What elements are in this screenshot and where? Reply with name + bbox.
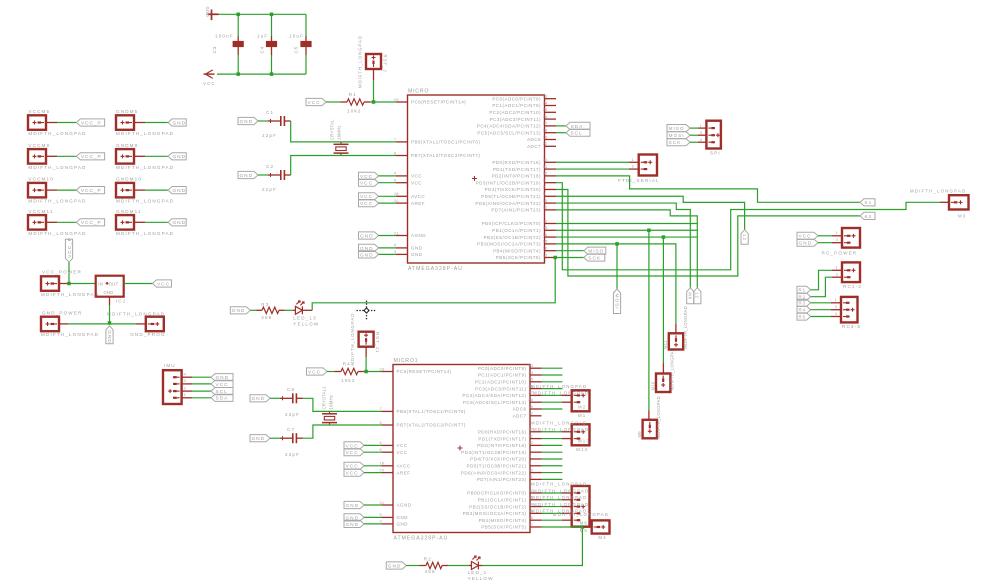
wire MICRO1 PC3 stub [542, 388, 563, 390]
svg-text:29: 29 [394, 98, 399, 102]
svg-text:20: 20 [380, 468, 385, 472]
svg-text:C1: C1 [266, 110, 274, 115]
wire PD1 to M13 [542, 438, 563, 440]
svg-text:PD6(AIN0/OC0A/PCINT22): PD6(AIN0/OC0A/PCINT22) [475, 201, 541, 206]
svg-text:3: 3 [632, 165, 635, 169]
svg-text:5: 5 [394, 244, 396, 248]
wire PB4 to M15 pad [542, 519, 563, 521]
svg-text:PC4(ADC4/SDA/PCINT12): PC4(ADC4/SDA/PCINT12) [462, 393, 526, 398]
pad GND_POWER MDIFTH_LONGPAD [41, 317, 59, 332]
wire MICRO1 PD stub k15.35 [542, 472, 563, 474]
wire PD2 to K1 [556, 176, 860, 202]
svg-text:PB2(SS/OC1B/PCINT2): PB2(SS/OC1B/PCINT2) [484, 235, 541, 240]
svg-text:5: 5 [380, 513, 382, 517]
svg-text:10: 10 [528, 468, 533, 472]
net tag VCC (MICRO pin y175.9) [359, 172, 379, 179]
svg-text:27: 27 [543, 122, 548, 126]
pad M3 MDIFTH_LONGPAD [949, 195, 969, 209]
svg-text:468: 468 [261, 315, 272, 320]
wire GNDM5 to GND [145, 122, 168, 124]
svg-text:M13: M13 [578, 439, 590, 444]
wire R5 to RC3-5 [811, 316, 831, 318]
supply symbol VCC (cap bank) [206, 71, 212, 77]
capacitor C7 22pF [280, 437, 293, 439]
net tag GND (C7) [250, 435, 270, 442]
wire MICRO1 ADC6 stub [542, 408, 563, 410]
svg-text:M4: M4 [598, 535, 606, 540]
svg-text:K1: K1 [865, 200, 873, 206]
svg-text:3: 3 [836, 238, 839, 242]
svg-text:M8: M8 [688, 292, 693, 300]
svg-text:VCC_P: VCC_P [81, 120, 102, 126]
wire GND tag to MICRO [379, 253, 397, 255]
net tag GND (MICRO1 y505.0) [344, 501, 364, 508]
wire VCC tag to MICRO1 [364, 472, 382, 474]
svg-text:3: 3 [700, 131, 703, 135]
svg-text:21: 21 [394, 231, 399, 235]
wire R3 to LED_13 [285, 309, 294, 311]
wire VCC_P down to junction [68, 262, 70, 283]
wire GND to C2 [258, 174, 268, 176]
junction PB5/LED [553, 256, 557, 259]
wire IMU SCL [192, 390, 211, 392]
svg-text:11: 11 [543, 206, 548, 210]
svg-text:GND: GND [106, 330, 112, 344]
net tag VCC (MICRO1 y452.2) [344, 449, 364, 456]
pin 2 PD4(T0/XCK/PCINT20) of MICRO [545, 188, 557, 190]
svg-text:1: 1 [700, 124, 703, 128]
svg-text:AVCC: AVCC [411, 194, 425, 199]
pin 22 ADC7 of MICRO [545, 145, 557, 147]
wire PB5 to M4 [542, 526, 584, 528]
crystal Q1 CRYSTAL 16MHz [334, 143, 349, 145]
svg-text:GNDM11: GNDM11 [116, 209, 142, 214]
svg-text:8: 8 [394, 151, 396, 155]
capacitor C1 22pF [268, 120, 281, 122]
pad VCCM11 MDIFTH_LONGPAD [28, 215, 46, 230]
capacitor C3 100nF [237, 36, 239, 41]
wire MICRO1 PC1 stub [542, 374, 563, 376]
pin 13 PB1(OC1A/PCINT1) of MICRO1 [530, 499, 542, 501]
pin 24 PC1(ADC1/PCINT9) of MICRO [545, 105, 557, 107]
net tag SDA (IMU) [211, 394, 233, 401]
svg-text:VCC_P: VCC_P [81, 220, 102, 226]
svg-text:25: 25 [543, 108, 548, 112]
svg-text:SPI: SPI [710, 151, 721, 156]
wire VCC to R1 [326, 101, 341, 103]
pin 17 PB5(SCK/PCINT5) of MICRO1 [530, 526, 542, 528]
net tag VCC (MICRO pin y182.7) [359, 179, 379, 186]
svg-text:PC0(ADC0/PCINT8): PC0(ADC0/PCINT8) [478, 366, 527, 371]
svg-text:22pF: 22pF [262, 133, 277, 138]
svg-text:LED_13: LED_13 [293, 315, 317, 320]
pin 7 PB6(XTAL1/TOSC1/PCINT6) of MICRO1 [382, 410, 394, 412]
svg-text:16: 16 [528, 516, 533, 520]
pin SPI 3 [698, 134, 706, 136]
wire GND to R3 [250, 309, 256, 311]
wire VCCM11 to VCC_P [57, 221, 76, 223]
svg-text:PB3(MOSI/OC2A/PCINT3): PB3(MOSI/OC2A/PCINT3) [463, 511, 527, 516]
svg-text:C2: C2 [266, 164, 274, 169]
svg-text:MDIFTH_LONGPAD: MDIFTH_LONGPAD [670, 348, 675, 391]
net tag K2 [860, 212, 875, 219]
svg-text:PD5(T1/OC0B/PCINT21): PD5(T1/OC0B/PCINT21) [481, 194, 541, 199]
pin 1 PD3(INT1/OC2B/PCINT19) of MICRO [545, 182, 557, 184]
wire GND to RC_POWER [818, 242, 832, 244]
svg-text:GND: GND [173, 220, 187, 226]
net tag SCL [566, 129, 590, 136]
pin 22 ADC7 of MICRO1 [530, 415, 542, 417]
pin RC1-2 p2 [832, 276, 842, 278]
pin 3 GND of MICRO1 [382, 523, 394, 525]
wire PB1 to M9 pad [648, 230, 650, 410]
svg-text:GND: GND [388, 563, 402, 569]
pin 18 AVCC of MICRO1 [382, 465, 394, 467]
junction RESET2 node [364, 370, 368, 374]
wire SCK to SPI [690, 141, 698, 143]
svg-text:VCC_P: VCC_P [81, 154, 102, 160]
net tag VCC (MICRO1 y465.8) [344, 462, 364, 469]
net tag 12 (PD7) [694, 288, 701, 304]
pad SPI [706, 121, 721, 149]
svg-text:VCCM9: VCCM9 [28, 143, 50, 148]
svg-text:4: 4 [380, 441, 382, 445]
junction C4 top [270, 13, 274, 16]
svg-text:15: 15 [543, 240, 548, 244]
svg-text:MDIFTH_LONGPAD: MDIFTH_LONGPAD [531, 495, 587, 500]
svg-text:C8: C8 [287, 387, 295, 392]
net tag GND (MICRO pin y247.9) [359, 244, 379, 251]
pin 10 PD6(AIN0/OC0A/PCINT22) of MICRO1 [530, 472, 542, 474]
wire GND tag to MICRO [379, 235, 397, 237]
net tag SCK (PB5) [584, 254, 605, 261]
pin IMU VCC [182, 383, 192, 385]
svg-text:1: 1 [836, 231, 839, 235]
pin RC3-5 p3 [831, 316, 841, 318]
svg-text:19: 19 [543, 135, 548, 139]
wire MICRO1 PC2 stub [542, 381, 563, 383]
pin M4 [583, 526, 592, 528]
pin 8 PB7(XTAL2/TOSC2/PCINT7) of MICRO [396, 155, 408, 157]
svg-text:1: 1 [836, 266, 839, 270]
net tag GND (C8) [250, 395, 270, 402]
wire GND tag to MICRO [379, 247, 397, 249]
svg-text:3: 3 [394, 250, 396, 254]
svg-text:17: 17 [543, 253, 548, 257]
wire vcc rail bottom [217, 73, 306, 75]
pin M15 p5 [562, 519, 572, 521]
pin M15 p2 [562, 499, 572, 501]
pin 20 AREF of MICRO1 [382, 472, 394, 474]
svg-text:21: 21 [380, 501, 385, 505]
wire VCC_POWER to IC1 IN [68, 283, 96, 285]
svg-text:30: 30 [543, 158, 548, 162]
net tag M8 (PD6) [687, 288, 694, 304]
svg-text:VCC: VCC [308, 369, 321, 375]
net tag GND (RC_POWER) [797, 239, 818, 246]
svg-text:C3: C3 [212, 46, 217, 54]
svg-text:16MHz: 16MHz [329, 395, 334, 410]
pin 14 PB2(SS/OC1B/PCINT2) of MICRO [545, 236, 557, 238]
net tag VCC (MICRO pin y196.3) [359, 193, 379, 200]
svg-text:MDIFTH_LONGPAD: MDIFTH_LONGPAD [531, 420, 587, 425]
net tag VCC (RC_POWER) [797, 232, 818, 239]
pad VCC_POWER MDIFTH_LONGPAD [41, 276, 59, 291]
wire PC4 to M1 [542, 394, 563, 396]
pad VCCM10 MDIFTH_LONGPAD [28, 183, 46, 198]
pin 16 PB4(MISO/PCINT4) of MICRO1 [530, 519, 542, 521]
net tag VCC_P (VCCM10) [76, 187, 104, 194]
wire IMU SDA [192, 397, 211, 399]
svg-text:R3: R3 [261, 302, 269, 307]
svg-text:MDIFTH_LONGPAD: MDIFTH_LONGPAD [533, 488, 589, 493]
pad M15 MDIFTH_LONGPAD x5 [572, 486, 590, 527]
pin RC1-2 p1 [832, 269, 842, 271]
svg-text:PC2(ADC2/PCINT10): PC2(ADC2/PCINT10) [475, 380, 527, 385]
svg-text:PD1(TXD/PCINT17): PD1(TXD/PCINT17) [478, 436, 526, 441]
wire R3 to RC3-5 [811, 302, 831, 304]
pad M10 MDIFTH_LONGPAD [662, 363, 664, 373]
svg-text:AGND: AGND [411, 233, 426, 238]
wire C3 bottom lead [237, 55, 239, 74]
junction PB5-2/LED [581, 525, 585, 529]
svg-text:9: 9 [528, 462, 530, 466]
pin 29 PC6(RESET/PCINT14) of MICRO1 [382, 371, 394, 373]
svg-text:9: 9 [543, 192, 545, 196]
svg-text:14: 14 [543, 233, 548, 237]
svg-text:PD4(T0/XCK/PCINT20): PD4(T0/XCK/PCINT20) [485, 187, 541, 192]
net tag R2 (RC) [797, 293, 811, 300]
wire VCC to R4 [327, 371, 335, 373]
pin 12 PB0(ICP/CLKO/PCINT0) of MICRO1 [530, 492, 542, 494]
svg-text:M9: M9 [637, 431, 642, 438]
svg-text:4: 4 [835, 312, 838, 316]
svg-text:PB5(SCK/PCINT5): PB5(SCK/PCINT5) [481, 525, 526, 530]
net tag R4 (RC) [797, 306, 811, 313]
svg-text:18: 18 [394, 192, 399, 196]
wire C5 top lead [305, 14, 307, 36]
svg-text:MDIFTH_LONGPAD: MDIFTH_LONGPAD [116, 199, 174, 204]
svg-text:GND: GND [397, 522, 409, 527]
ground symbol (cap bank) [211, 10, 213, 21]
svg-text:PD5(T1/OC0B/PCINT21): PD5(T1/OC0B/PCINT21) [467, 463, 527, 468]
svg-text:32: 32 [543, 172, 548, 176]
svg-text:VCC: VCC [411, 174, 422, 179]
svg-text:GNDM10: GNDM10 [116, 177, 142, 182]
wire R1 to RC1-2 [811, 270, 832, 290]
wire C2 to XTAL2 [291, 156, 396, 176]
origin cross of MICRO [472, 178, 477, 180]
svg-text:PC3(ADC3/PCINT11): PC3(ADC3/PCINT11) [475, 386, 526, 391]
svg-text:11: 11 [528, 475, 533, 479]
wire R4 to RC3-5 [811, 309, 831, 311]
pin 32 PD2(INT0/PCINT18) of MICRO [545, 175, 557, 177]
resistor R2 468 [420, 565, 427, 567]
pin 26 PC3(ADC3/PCINT11) of MICRO [545, 118, 557, 120]
wire PC5 to SCL [556, 132, 566, 134]
svg-text:SDA: SDA [216, 396, 229, 402]
svg-text:RC1-2: RC1-2 [843, 284, 862, 289]
wire PB1 to M15 pad [542, 499, 563, 501]
svg-text:PC6(RESET/PCINT14): PC6(RESET/PCINT14) [411, 100, 466, 105]
svg-text:PD0(RXD/PCINT16): PD0(RXD/PCINT16) [492, 160, 541, 165]
wire VCCM10 to VCC_P [57, 189, 76, 191]
pad M1 MDIFTH_LONGPAD [572, 390, 590, 411]
wire VCC tag to MICRO1 [364, 444, 382, 446]
pin GND_POWER [59, 323, 68, 325]
svg-text:PD3(INT1/OC2B/PCINT19): PD3(INT1/OC2B/PCINT19) [476, 180, 541, 185]
svg-text:R1: R1 [349, 92, 357, 97]
net tag GND (C2) [238, 171, 258, 178]
svg-text:MDIFTH_LONGPAD: MDIFTH_LONGPAD [533, 427, 589, 432]
svg-text:VCC: VCC [346, 450, 359, 456]
svg-text:R3: R3 [799, 301, 807, 306]
svg-text:AREF: AREF [411, 201, 425, 206]
wire PB3 to MOSI tag [616, 244, 618, 289]
svg-text:28: 28 [528, 398, 533, 402]
svg-text:PB0(ICP/CLKO/PCINT0): PB0(ICP/CLKO/PCINT0) [482, 221, 541, 226]
pin M1 p2 [562, 401, 572, 403]
wire PC5 to M1 [542, 401, 563, 403]
pin 28 PC5(ADC5/SCL/PCINT13) of MICRO1 [530, 401, 542, 403]
net tag VCC (R1) [306, 98, 326, 105]
svg-text:1uF: 1uF [257, 34, 268, 39]
wire PB0 to M15 pad [542, 492, 563, 494]
svg-text:VCC: VCC [203, 81, 216, 86]
svg-text:RC_POWER: RC_POWER [822, 251, 858, 256]
pin IMU SCL [182, 390, 192, 392]
pin 30 PD0(RXD/PCINT16) of MICRO1 [530, 431, 542, 433]
wire C7 to XTAL2 2 [303, 425, 382, 438]
wire PB5 down to LED_1 [482, 527, 582, 566]
svg-text:MDIFTH_LONGPAD: MDIFTH_LONGPAD [656, 396, 661, 439]
svg-text:29: 29 [380, 367, 385, 371]
pad M13 MDIFTH_LONGPAD [572, 424, 590, 445]
svg-text:3: 3 [380, 520, 382, 524]
pin 5 GND of MICRO1 [382, 516, 394, 518]
svg-text:K2: K2 [865, 214, 873, 220]
svg-text:22pF: 22pF [285, 452, 300, 457]
svg-text:MDIFTH_LONGPAD: MDIFTH_LONGPAD [116, 131, 174, 136]
svg-text:10k2: 10k2 [347, 109, 362, 114]
svg-text:VCC: VCC [157, 281, 170, 287]
svg-text:MDIFTH_LONGPAD: MDIFTH_LONGPAD [107, 312, 165, 317]
svg-text:MDIFTH_LONGPAD: MDIFTH_LONGPAD [533, 391, 589, 396]
pin 27 PC4(ADC4/SDA/PCINT12) of MICRO [545, 125, 557, 127]
pin 32 PD2(INT0/PCINT18) of MICRO1 [530, 444, 542, 446]
net tag VCC (MICRO pin y203.1) [359, 200, 379, 207]
pin M1 p1 [562, 394, 572, 396]
svg-text:24: 24 [528, 371, 533, 375]
svg-text:2: 2 [528, 455, 530, 459]
svg-text:VCCM5: VCCM5 [28, 109, 50, 114]
pin FTDI 2 [629, 168, 639, 170]
wire VCC to RC_POWER [818, 235, 832, 237]
net tag MISO (SPI) [667, 125, 690, 132]
svg-text:LED_1: LED_1 [468, 570, 488, 575]
pin M3 [940, 201, 949, 203]
pad GNDM11 MDIFTH_LONGPAD [116, 215, 134, 230]
svg-text:M14: M14 [576, 447, 588, 452]
svg-text:PC2(ADC2/PCINT10): PC2(ADC2/PCINT10) [489, 110, 541, 115]
svg-text:PB4(MISO/PCINT4): PB4(MISO/PCINT4) [493, 248, 541, 253]
pad M9 MDIFTH_LONGPAD [648, 411, 650, 420]
svg-text:R5: R5 [799, 314, 807, 319]
svg-text:GND: GND [252, 436, 266, 442]
wire R4 to RESET 2 [364, 371, 382, 373]
svg-text:VCC: VCC [397, 443, 408, 448]
svg-text:23: 23 [528, 364, 533, 368]
svg-text:PD4(T0/XCK/PCINT20): PD4(T0/XCK/PCINT20) [470, 457, 526, 462]
net tag GND (GNDM10) [168, 187, 186, 194]
wire C4 top lead [271, 14, 273, 36]
pin 20 AREF of MICRO [396, 202, 408, 204]
net tag MOSI vertical [613, 289, 620, 314]
wire C4 bottom lead [271, 55, 273, 74]
wire junction to GND_PROG [110, 323, 137, 325]
pin 30 PD0(RXD/PCINT16) of MICRO [545, 161, 557, 163]
svg-text:22: 22 [528, 412, 533, 416]
wire GNDM9 to GND [145, 155, 168, 157]
net tag 12 (PD5) [741, 230, 748, 245]
svg-text:17: 17 [528, 523, 533, 527]
wire IMU GND [192, 376, 211, 378]
net tag GND (GNDM5) [168, 119, 186, 126]
net tag VCC_P vertical [65, 239, 72, 262]
svg-text:32: 32 [528, 441, 533, 445]
pad FTDI_SERIAL [639, 155, 657, 176]
svg-text:GND: GND [173, 120, 187, 126]
pin RC3-5 p2 [831, 309, 841, 311]
svg-text:VCC: VCC [346, 471, 359, 477]
pin 15 PB3(MOSI/OC2A/PCINT3) of MICRO1 [530, 512, 542, 514]
svg-text:ADC7: ADC7 [513, 414, 527, 419]
pin SPI 1 [698, 127, 706, 129]
svg-text:12: 12 [695, 292, 700, 299]
svg-text:PC5(ADC5/SCL/PCINT13): PC5(ADC5/SCL/PCINT13) [477, 130, 541, 135]
pin M13 p2 [562, 438, 572, 440]
net tag GND (LED_13) [230, 307, 250, 314]
pin M15 p3 [562, 506, 572, 508]
net tag GND (MICRO pin y254.4) [359, 251, 379, 258]
pin 13 PB1(OC1A/PCINT1) of MICRO [545, 229, 557, 231]
svg-text:FTDI_SERIAL: FTDI_SERIAL [618, 178, 660, 183]
net tag MOSI (SPI) [667, 132, 690, 139]
svg-text:GND: GND [360, 233, 374, 239]
svg-text:MDIFTH_LONGPAD: MDIFTH_LONGPAD [533, 502, 589, 507]
svg-text:22pF: 22pF [262, 187, 277, 192]
wire GND to C1 [258, 120, 268, 122]
svg-text:GND: GND [173, 154, 187, 160]
svg-text:C4: C4 [260, 46, 265, 54]
wire PB4 to MISO [556, 250, 584, 252]
svg-text:10: 10 [543, 199, 548, 203]
svg-text:MDIFTH_LONGPAD: MDIFTH_LONGPAD [358, 35, 363, 88]
svg-text:22: 22 [543, 142, 548, 146]
wire VCCM9 to VCC_P [57, 155, 76, 157]
svg-text:PD1(TXD/PCINT17): PD1(TXD/PCINT17) [493, 167, 541, 172]
wire GNDM11 to GND [145, 221, 168, 223]
svg-text:VCC_P: VCC_P [67, 237, 73, 258]
wire C5 bottom lead [305, 55, 307, 74]
pin VCC_POWER [59, 283, 68, 285]
svg-text:PB0(ICP/CLKO/PCINT0): PB0(ICP/CLKO/PCINT0) [467, 491, 526, 496]
svg-text:MOSI: MOSI [613, 294, 619, 310]
svg-text:M10: M10 [651, 381, 656, 390]
pin RST_J1 lead [365, 347, 367, 357]
wire R2 to RC1-2 [811, 277, 832, 297]
svg-text:GND_PROG: GND_PROG [130, 332, 166, 337]
